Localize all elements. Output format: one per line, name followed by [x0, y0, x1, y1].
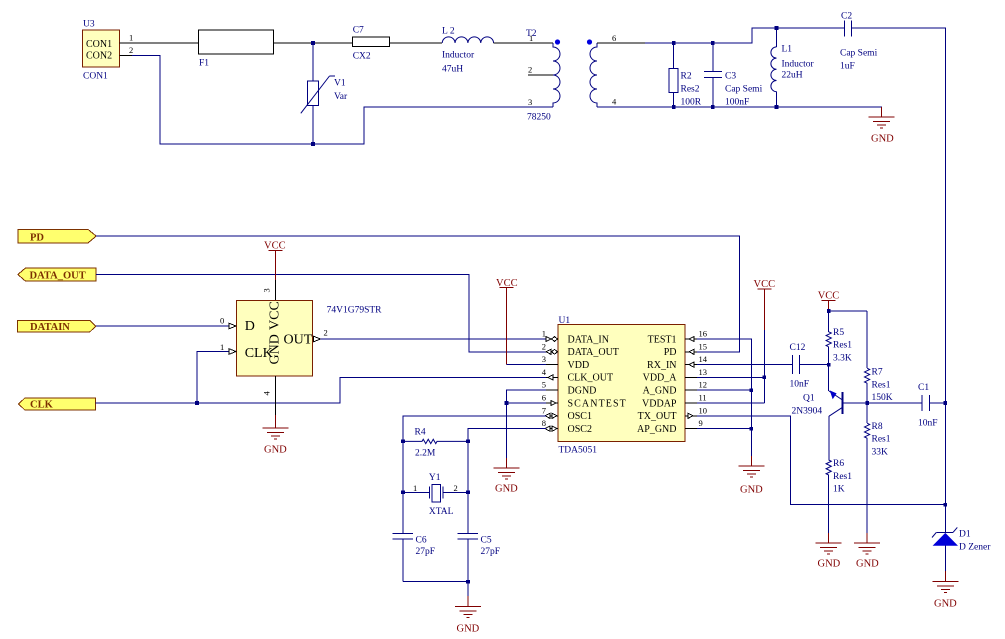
- node A_GND junction: [750, 388, 754, 392]
- pin 1 CLK of flip-flop: [220, 342, 236, 354]
- pin 12 of U1: [685, 380, 707, 391]
- svg-text:Cap Semi: Cap Semi: [840, 49, 878, 59]
- svg-text:V1: V1: [334, 79, 346, 89]
- svg-text:D Zener: D Zener: [959, 543, 991, 553]
- svg-text:TX_OUT: TX_OUT: [638, 411, 677, 422]
- resistor R5: [826, 311, 852, 391]
- wire F1 to C7: [274, 42, 353, 44]
- svg-text:CON1: CON1: [83, 72, 108, 82]
- wire TX_OUT pin10 down to D1 rail: [697, 416, 945, 505]
- svg-text:VCC: VCC: [264, 241, 286, 252]
- svg-text:Res1: Res1: [833, 341, 852, 351]
- ground DGND: [494, 458, 520, 495]
- svg-text:11: 11: [699, 393, 707, 403]
- crystal Y1: [403, 473, 468, 517]
- wire crystal caps bottom: [403, 582, 468, 596]
- svg-text:16: 16: [699, 329, 708, 339]
- svg-text:L1: L1: [782, 44, 793, 54]
- ground analog U1: [738, 456, 764, 496]
- pin 9 of U1: [685, 418, 703, 429]
- svg-text:AP_GND: AP_GND: [637, 424, 676, 435]
- svg-text:DGND: DGND: [568, 386, 597, 397]
- pin 16 of U1: [685, 329, 707, 342]
- svg-text:27pF: 27pF: [416, 547, 436, 557]
- svg-text:150K: 150K: [872, 393, 893, 403]
- wire DATAIN to flip-flop D: [96, 325, 229, 327]
- pin 15 of U1: [685, 341, 707, 354]
- svg-text:VDD_A: VDD_A: [643, 373, 678, 384]
- resistor R2: [669, 43, 702, 108]
- svg-text:CON1: CON1: [86, 39, 112, 50]
- wire VDD_A pin13: [697, 376, 764, 378]
- ground below D1: [932, 571, 958, 610]
- svg-text:SCANTEST: SCANTEST: [568, 398, 627, 409]
- pin 13 of U1: [685, 367, 707, 378]
- node R4 left: [401, 439, 405, 443]
- pin 6 of U1: [542, 393, 558, 406]
- svg-text:13: 13: [699, 367, 708, 377]
- svg-text:L 2: L 2: [442, 27, 455, 37]
- svg-text:C5: C5: [481, 536, 492, 546]
- svg-text:GND: GND: [871, 134, 894, 145]
- wire DATA_OUT to U1 pin2: [96, 275, 546, 352]
- port DATAIN: [18, 321, 96, 334]
- port PD: [18, 229, 96, 243]
- pin 5 of U1: [542, 380, 558, 391]
- pin 11 of U1: [685, 393, 707, 404]
- wire VCC to U1 VDD pin3: [507, 364, 546, 366]
- svg-text:DATA_OUT: DATA_OUT: [30, 271, 86, 282]
- capacitor C7: [353, 26, 390, 62]
- svg-text:3: 3: [528, 97, 532, 107]
- wire PD to U1 pin15: [96, 236, 740, 352]
- svg-text:100R: 100R: [681, 98, 702, 108]
- node L1 bottom: [775, 105, 779, 109]
- svg-text:OSC2: OSC2: [568, 424, 592, 435]
- transistor Q1: [792, 390, 843, 416]
- svg-text:4: 4: [612, 97, 617, 107]
- svg-text:GND: GND: [457, 624, 480, 635]
- wire Q1 base row to C1: [843, 402, 922, 404]
- capacitor C1: [918, 383, 945, 429]
- wire OSC2 pin8 to crystal right: [468, 429, 546, 493]
- wire U3 pin1 to F1: [132, 42, 199, 44]
- svg-text:2: 2: [454, 483, 458, 493]
- svg-text:GND: GND: [934, 599, 957, 610]
- node base R7 R8 junction: [865, 401, 869, 405]
- svg-text:VCC: VCC: [268, 301, 283, 330]
- svg-text:GND: GND: [495, 484, 518, 495]
- svg-text:1: 1: [220, 342, 224, 352]
- svg-text:6: 6: [612, 33, 616, 43]
- wire CLK to CLK_OUT pin4: [95, 377, 546, 403]
- pin 4 GND of flip-flop: [262, 376, 276, 415]
- wire RX_IN pin14 to C12: [697, 364, 792, 366]
- svg-text:Var: Var: [334, 92, 348, 102]
- svg-text:6: 6: [542, 393, 546, 403]
- svg-text:C6: C6: [416, 536, 427, 546]
- wire CLK branch to flip-flop CLK: [197, 352, 229, 404]
- power VCC above flip-flop: [264, 241, 286, 301]
- svg-text:10nF: 10nF: [790, 380, 810, 390]
- wire L2 to T2: [494, 42, 553, 44]
- svg-text:14: 14: [699, 354, 708, 364]
- node SCANTEST junction: [505, 401, 509, 405]
- inductor L1: [771, 28, 815, 107]
- svg-text:VDD: VDD: [568, 360, 590, 371]
- pin 1 of U3: [120, 33, 134, 44]
- capacitor C5: [458, 492, 500, 581]
- svg-text:Q1: Q1: [803, 394, 815, 404]
- svg-text:74V1G79STR: 74V1G79STR: [327, 306, 383, 316]
- ground XTAL: [455, 596, 481, 635]
- svg-text:2: 2: [324, 328, 328, 338]
- wire DGND pin5 to ground: [507, 390, 546, 458]
- wire C12 to Q1 collector line: [800, 364, 829, 366]
- node R4 right: [466, 439, 470, 443]
- svg-text:C2: C2: [841, 12, 852, 22]
- ground below R6: [816, 533, 842, 570]
- svg-text:8: 8: [542, 418, 546, 428]
- node C3 bottom: [711, 105, 715, 109]
- svg-text:78250: 78250: [527, 113, 551, 123]
- svg-text:A_GND: A_GND: [643, 386, 677, 397]
- pin 2 of U3: [120, 45, 134, 56]
- svg-text:4: 4: [542, 367, 547, 377]
- pin 1 of U1: [542, 329, 558, 342]
- svg-text:D: D: [245, 319, 255, 334]
- svg-text:R7: R7: [872, 368, 883, 378]
- varistor V1: [301, 43, 348, 144]
- svg-text:Inductor: Inductor: [782, 59, 815, 69]
- node TX_OUT to zener rail: [944, 503, 948, 507]
- svg-text:5: 5: [542, 380, 546, 390]
- capacitor C12: [790, 343, 810, 390]
- pin 2 of T2: [528, 65, 553, 76]
- svg-text:F1: F1: [199, 59, 209, 69]
- wire SCANTEST pin6: [507, 402, 546, 404]
- svg-text:Res1: Res1: [872, 380, 891, 390]
- pin 2 of U1: [542, 341, 558, 354]
- node VCC branch: [827, 309, 831, 313]
- svg-text:DATA_IN: DATA_IN: [568, 334, 609, 345]
- svg-text:OSC1: OSC1: [568, 411, 592, 422]
- node R2 top: [672, 41, 676, 45]
- svg-text:Res1: Res1: [833, 472, 852, 482]
- node C12 junction: [827, 363, 831, 367]
- port CLK: [19, 398, 96, 411]
- node R2 bottom: [672, 105, 676, 109]
- svg-text:0: 0: [220, 316, 224, 326]
- power VCC Q1: [818, 290, 840, 311]
- svg-text:R8: R8: [872, 422, 883, 432]
- svg-text:1uF: 1uF: [840, 62, 855, 72]
- wire T2 pin6 to C2 with jog: [597, 42, 645, 44]
- svg-text:2N3904: 2N3904: [792, 407, 823, 417]
- svg-text:1K: 1K: [833, 485, 845, 495]
- ground below R8: [854, 533, 880, 570]
- svg-text:3: 3: [262, 288, 272, 292]
- pin 10 of U1: [685, 405, 707, 418]
- node C1 right: [944, 401, 948, 405]
- svg-text:D1: D1: [959, 530, 971, 540]
- node C5 bottom: [466, 580, 470, 584]
- wire TEST1 pin16 down to analog ground rail: [697, 339, 751, 456]
- svg-text:U1: U1: [559, 316, 571, 326]
- svg-text:PD: PD: [664, 347, 677, 358]
- wire C2 to right rail: [852, 28, 946, 532]
- svg-text:VDDAP: VDDAP: [642, 398, 677, 409]
- capacitor C6: [393, 492, 435, 581]
- wire VCC branch to R7: [829, 310, 867, 312]
- svg-text:3.3K: 3.3K: [833, 353, 852, 363]
- ground below flip-flop: [263, 415, 289, 456]
- svg-text:CLK_OUT: CLK_OUT: [568, 373, 614, 384]
- svg-text:GND: GND: [818, 559, 841, 570]
- svg-text:R5: R5: [833, 328, 844, 338]
- svg-text:GND: GND: [264, 445, 287, 456]
- svg-text:22uH: 22uH: [782, 70, 803, 80]
- svg-text:CLK: CLK: [30, 400, 54, 411]
- svg-text:2.2M: 2.2M: [415, 449, 436, 459]
- svg-text:OUT: OUT: [284, 333, 313, 348]
- resistor R6: [826, 416, 852, 533]
- svg-text:U3: U3: [83, 20, 95, 30]
- svg-text:XTAL: XTAL: [429, 507, 454, 517]
- pin 3 of U1: [542, 354, 558, 365]
- power VCC above U1 VDD: [496, 278, 518, 365]
- node L1 top: [775, 26, 779, 30]
- svg-text:TDA5051: TDA5051: [559, 446, 598, 456]
- port DATA_OUT: [18, 268, 96, 282]
- svg-text:R4: R4: [415, 427, 426, 437]
- node CLK branch: [195, 401, 199, 405]
- IC U1 TDA5051: [558, 316, 685, 456]
- svg-text:C7: C7: [353, 26, 364, 36]
- svg-text:C1: C1: [918, 383, 929, 393]
- svg-text:GND: GND: [856, 559, 879, 570]
- svg-text:GND: GND: [268, 334, 283, 364]
- pin 4 of U1: [542, 367, 558, 380]
- capacitor C2: [840, 12, 878, 72]
- inductor L2: [442, 27, 494, 75]
- svg-text:2: 2: [528, 65, 532, 75]
- capacitor C3: [704, 43, 763, 108]
- svg-text:2: 2: [129, 45, 133, 55]
- resistor R7: [864, 311, 892, 403]
- wire flip-flop OUT to U1 pin1: [321, 338, 546, 340]
- wire OSC1 pin7 to crystal left: [403, 416, 546, 493]
- svg-text:12: 12: [699, 380, 708, 390]
- svg-text:1: 1: [413, 483, 417, 493]
- svg-text:4: 4: [262, 391, 272, 396]
- svg-text:Inductor: Inductor: [442, 51, 475, 61]
- svg-text:10: 10: [699, 405, 708, 415]
- connector U3: [83, 20, 120, 82]
- svg-text:CON2: CON2: [86, 51, 112, 62]
- node V1 top: [311, 41, 315, 45]
- resistor R8: [864, 403, 890, 533]
- pin 0 D of flip-flop: [220, 316, 236, 329]
- svg-text:TEST1: TEST1: [648, 334, 677, 345]
- pin 14 of U1: [685, 354, 708, 367]
- svg-text:CX2: CX2: [353, 52, 371, 62]
- svg-text:2: 2: [542, 341, 546, 351]
- node Y1 left: [401, 491, 405, 495]
- svg-text:9: 9: [699, 418, 703, 428]
- svg-text:47uH: 47uH: [442, 65, 463, 75]
- svg-text:DATA_OUT: DATA_OUT: [568, 347, 619, 358]
- svg-text:7: 7: [542, 405, 546, 415]
- svg-text:1: 1: [529, 33, 533, 43]
- transformer T2: [526, 29, 597, 123]
- svg-text:33K: 33K: [872, 447, 889, 457]
- node C3 top: [711, 41, 715, 45]
- svg-text:Y1: Y1: [429, 473, 441, 483]
- flip-flop U2 74V1G79STR: [237, 300, 383, 376]
- wire AP_GND pin9: [697, 428, 751, 430]
- svg-text:1: 1: [129, 33, 133, 43]
- svg-text:C3: C3: [725, 72, 736, 82]
- svg-text:Res2: Res2: [681, 84, 700, 94]
- pin 8 of U1: [542, 418, 558, 431]
- node VDD_A junction: [763, 376, 767, 380]
- svg-text:RX_IN: RX_IN: [647, 360, 676, 371]
- svg-text:1: 1: [542, 329, 546, 339]
- svg-text:DATAIN: DATAIN: [30, 322, 70, 333]
- svg-text:PD: PD: [30, 232, 44, 243]
- wire C7 to L2: [390, 42, 443, 44]
- wire A_GND pin12: [697, 389, 751, 391]
- power VCC analog U1: [754, 279, 776, 403]
- pin 7 of U1: [542, 405, 558, 418]
- node V1 bottom: [311, 142, 315, 146]
- fuse F1: [199, 30, 274, 69]
- ground top right: [869, 107, 895, 145]
- svg-text:GND: GND: [740, 485, 763, 496]
- node Y1 right: [466, 491, 470, 495]
- node AP_GND junction: [750, 427, 754, 431]
- svg-text:100nF: 100nF: [725, 98, 749, 108]
- svg-text:27pF: 27pF: [481, 547, 501, 557]
- svg-text:R6: R6: [833, 459, 844, 469]
- svg-text:Cap Semi: Cap Semi: [725, 84, 763, 94]
- wire U3 pin2 down and along bottom to T2 pin3: [132, 56, 553, 145]
- svg-text:R2: R2: [681, 72, 692, 82]
- svg-text:10nF: 10nF: [918, 419, 938, 429]
- pin 2 OUT of flip-flop: [314, 328, 328, 342]
- svg-text:VCC: VCC: [818, 290, 840, 301]
- svg-text:15: 15: [699, 341, 708, 351]
- svg-text:C12: C12: [790, 343, 806, 353]
- wire bottom T2 pin4 to GND: [597, 107, 882, 116]
- svg-text:3: 3: [542, 354, 546, 364]
- diode D1 zener: [932, 527, 991, 571]
- resistor R4: [403, 427, 468, 458]
- wire VDDAP pin11: [697, 402, 764, 404]
- svg-text:VCC: VCC: [754, 279, 776, 290]
- svg-text:Res1: Res1: [872, 435, 891, 445]
